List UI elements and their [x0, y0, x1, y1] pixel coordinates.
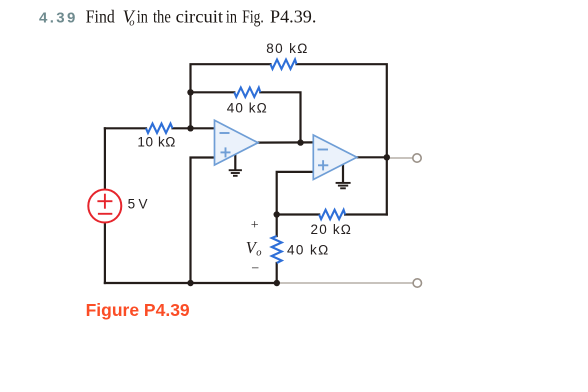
svg-text:4.39: 4.39 — [39, 10, 78, 27]
svg-text:−: − — [251, 262, 259, 277]
svg-text:5 V: 5 V — [128, 196, 148, 211]
svg-text:80 kΩ: 80 kΩ — [266, 41, 309, 56]
svg-text:o: o — [256, 248, 261, 259]
svg-text:10 kΩ: 10 kΩ — [137, 134, 176, 149]
svg-text:FindVointhecircuitinFig.P4.39.: FindVointhecircuitinFig.P4.39. — [86, 6, 317, 28]
svg-text:+: + — [251, 218, 259, 233]
svg-text:40 kΩ: 40 kΩ — [287, 243, 330, 258]
svg-text:20 kΩ: 20 kΩ — [310, 222, 352, 237]
svg-text:Figure P4.39: Figure P4.39 — [86, 300, 190, 320]
svg-text:40 kΩ: 40 kΩ — [227, 100, 268, 115]
